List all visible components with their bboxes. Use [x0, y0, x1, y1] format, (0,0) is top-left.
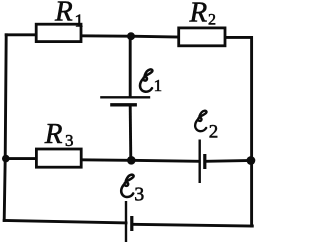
svg-text:R: R — [44, 118, 63, 150]
battery E3 long plate — [125, 201, 127, 242]
wire R3 to center junction — [81, 158, 131, 161]
wire top-left segment — [6, 33, 36, 36]
svg-text:3: 3 — [134, 184, 144, 206]
label E2 script-E — [195, 111, 218, 143]
wire center junction to E2 — [131, 160, 198, 161]
wire R2 to top-right corner — [225, 37, 252, 160]
wire bottom-left segment — [4, 220, 126, 223]
node right-middle junction — [247, 156, 256, 165]
battery E3 short plate — [130, 216, 133, 231]
battery E1 long plate — [100, 96, 150, 98]
label E1 script-E — [140, 69, 162, 95]
battery E2 long plate — [198, 140, 200, 184]
label R2 — [189, 0, 217, 29]
node left-middle junction — [2, 155, 10, 163]
svg-text:1: 1 — [154, 76, 163, 95]
wire top junction to R2 — [131, 35, 179, 39]
resistor R1 — [36, 24, 81, 41]
node top-center junction — [127, 32, 135, 40]
wire center branch lower — [129, 105, 133, 160]
wire left vertical — [4, 35, 6, 221]
wire center branch upper — [129, 36, 132, 97]
resistor R3 — [36, 149, 81, 167]
battery E1 short plate — [110, 103, 137, 106]
label R1 — [54, 0, 84, 31]
svg-text:R: R — [54, 0, 73, 28]
resistor R2 — [179, 28, 225, 46]
svg-text:2: 2 — [209, 122, 219, 143]
wire bottom-right segment — [133, 224, 253, 226]
label R3 — [44, 118, 74, 150]
wire E2 to right junction — [206, 159, 252, 163]
wire middle-left segment — [5, 157, 36, 160]
battery E2 short plate — [203, 154, 206, 169]
node center junction — [127, 156, 136, 165]
svg-text:3: 3 — [65, 131, 74, 150]
svg-text:R: R — [189, 0, 208, 29]
wire right vertical lower — [250, 161, 253, 227]
svg-text:2: 2 — [208, 12, 216, 29]
label E3 script-E — [121, 175, 144, 206]
wire R1 to top junction — [81, 34, 131, 37]
svg-text:1: 1 — [75, 11, 84, 31]
